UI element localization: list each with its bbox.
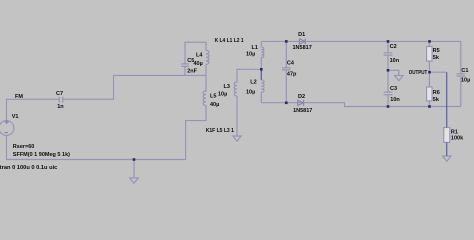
- svg-text:C3: C3: [390, 86, 397, 92]
- svg-text:10µ: 10µ: [218, 92, 227, 98]
- svg-text:C7: C7: [56, 91, 63, 97]
- svg-text:Rser=60: Rser=60: [13, 144, 35, 150]
- svg-text:1N5817: 1N5817: [293, 45, 312, 51]
- svg-text:L3: L3: [224, 84, 230, 90]
- svg-text:1N5817: 1N5817: [293, 108, 312, 114]
- svg-text:10n: 10n: [390, 58, 400, 64]
- svg-text:C1: C1: [461, 68, 468, 74]
- svg-text:5k: 5k: [433, 97, 440, 103]
- svg-text:L5: L5: [210, 94, 216, 100]
- svg-text:10µ: 10µ: [461, 78, 470, 84]
- svg-text:.tran 0 100u 0 0.1u uic: .tran 0 100u 0 0.1u uic: [0, 165, 57, 171]
- svg-text:R1: R1: [451, 130, 458, 136]
- svg-text:K1F L5 L3 1: K1F L5 L3 1: [206, 128, 234, 134]
- svg-text:R5: R5: [433, 48, 440, 54]
- svg-text:C4: C4: [287, 60, 295, 66]
- svg-text:100k: 100k: [451, 136, 464, 142]
- svg-text:D2: D2: [298, 94, 305, 100]
- svg-text:10n: 10n: [390, 97, 400, 103]
- svg-text:K L4 L1 L2 1: K L4 L1 L2 1: [215, 38, 244, 44]
- svg-text:C2: C2: [390, 44, 397, 50]
- svg-text:5k: 5k: [433, 55, 440, 61]
- svg-text:10µ: 10µ: [246, 52, 255, 58]
- svg-text:OUTPUT: OUTPUT: [409, 70, 428, 76]
- svg-text:47p: 47p: [287, 72, 297, 78]
- svg-text:C5: C5: [187, 58, 194, 64]
- svg-text:1n: 1n: [57, 104, 64, 110]
- svg-text:L2: L2: [250, 80, 256, 86]
- svg-text:FM: FM: [15, 94, 23, 100]
- svg-text:R6: R6: [433, 90, 440, 96]
- svg-text:L4: L4: [196, 52, 203, 58]
- svg-text:2nF: 2nF: [187, 68, 197, 74]
- svg-text:40µ: 40µ: [194, 61, 203, 67]
- svg-text:10µ: 10µ: [246, 89, 255, 95]
- svg-text:D1: D1: [298, 32, 305, 38]
- svg-text:40µ: 40µ: [210, 102, 219, 108]
- svg-text:SFFM(0 1 90Meg 5 1k): SFFM(0 1 90Meg 5 1k): [13, 152, 70, 158]
- svg-text:L1: L1: [252, 45, 258, 51]
- svg-text:V1: V1: [12, 114, 19, 120]
